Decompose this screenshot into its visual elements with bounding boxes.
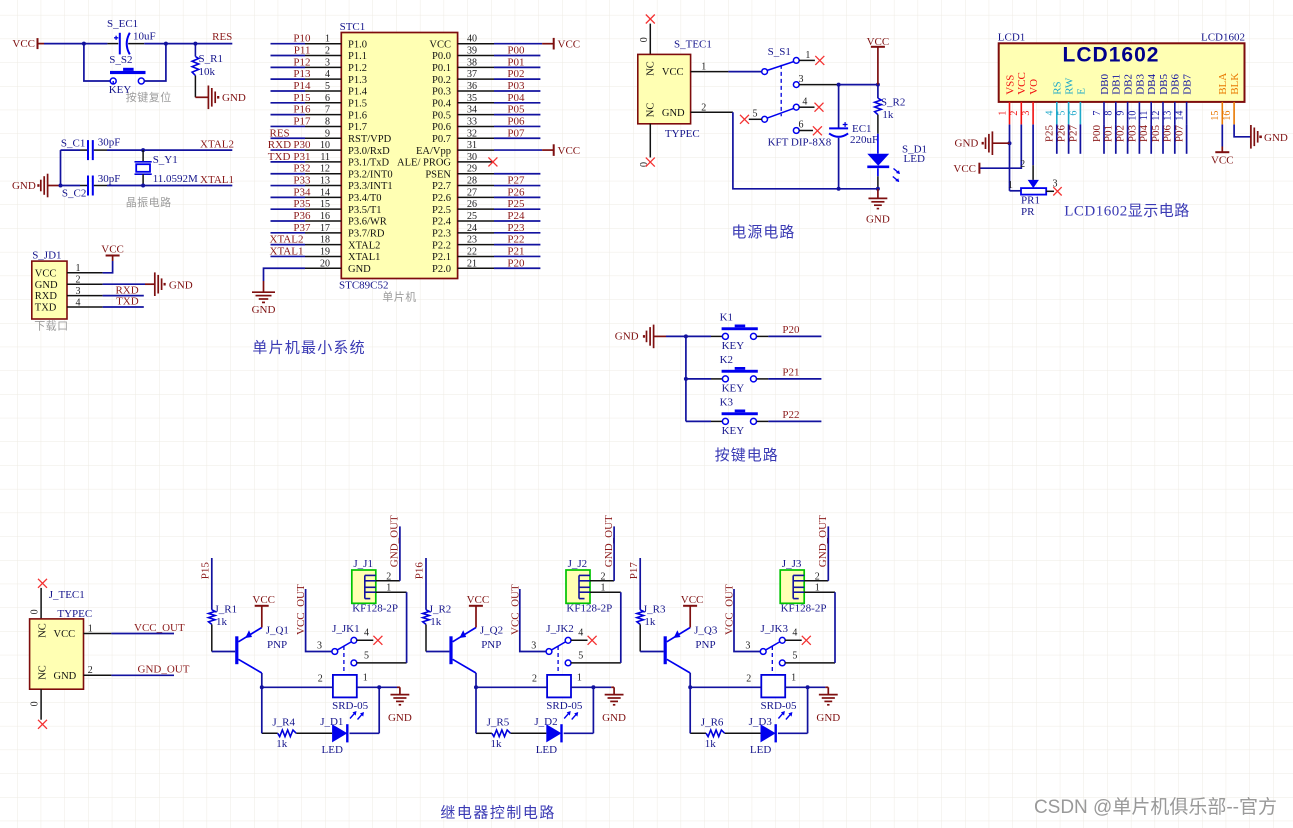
pin 4 — [305, 78, 341, 80]
svg-text:20: 20 — [320, 258, 330, 269]
svg-text:J_R3: J_R3 — [643, 603, 666, 615]
svg-text:1k: 1k — [491, 738, 503, 750]
svg-text:P15: P15 — [200, 562, 212, 580]
svg-text:VCC: VCC — [681, 594, 704, 606]
svg-text:11: 11 — [1139, 111, 1150, 121]
wire — [261, 673, 263, 687]
svg-text:4: 4 — [578, 628, 583, 639]
svg-text:P30: P30 — [293, 139, 311, 151]
svg-text:6: 6 — [325, 93, 330, 104]
wire — [689, 606, 691, 628]
wire — [271, 102, 306, 104]
svg-text:P0.0: P0.0 — [432, 51, 451, 62]
svg-text:5: 5 — [364, 651, 369, 662]
svg-text:0: 0 — [639, 37, 650, 42]
wire — [494, 255, 540, 257]
svg-text:P31: P31 — [293, 151, 310, 163]
svg-text:P0.2: P0.2 — [432, 75, 451, 86]
svg-text:VCC: VCC — [558, 38, 581, 50]
pin 30 — [458, 161, 494, 163]
pin 16 — [305, 220, 341, 222]
wire — [877, 189, 879, 199]
pin 23 — [458, 244, 494, 246]
svg-text:GND_OUT: GND_OUT — [603, 515, 615, 567]
svg-text:P2.3: P2.3 — [432, 229, 451, 240]
svg-text:27: 27 — [467, 187, 477, 198]
svg-text:XTAL2: XTAL2 — [270, 234, 304, 246]
svg-text:GND: GND — [348, 264, 371, 275]
svg-text:1: 1 — [363, 672, 368, 683]
wire — [877, 176, 879, 189]
wire — [425, 558, 427, 610]
wire — [877, 85, 879, 99]
svg-text:GND: GND — [602, 712, 626, 724]
pin 11 — [305, 161, 341, 163]
pin 33 — [458, 125, 494, 127]
wire — [685, 336, 687, 421]
svg-text:XTAL1: XTAL1 — [348, 252, 380, 263]
wire — [426, 651, 449, 653]
svg-text:RES: RES — [212, 31, 232, 43]
wire — [640, 651, 663, 653]
svg-text:1: 1 — [997, 111, 1008, 116]
wire — [262, 686, 333, 688]
svg-text:P34: P34 — [293, 186, 311, 198]
pin 3 — [67, 295, 103, 297]
svg-text:STC1: STC1 — [340, 21, 366, 33]
power port VCC — [553, 38, 555, 50]
pin 18 — [305, 244, 341, 246]
svg-text:P0.3: P0.3 — [432, 87, 451, 98]
svg-text:电源电路: 电源电路 — [731, 224, 795, 241]
wire — [379, 686, 397, 688]
svg-text:GND: GND — [1264, 132, 1288, 144]
svg-text:单片机: 单片机 — [382, 290, 417, 304]
wire — [649, 124, 651, 158]
svg-text:2: 2 — [1009, 111, 1020, 116]
svg-text:S_C2: S_C2 — [62, 187, 86, 199]
junction — [837, 187, 841, 191]
svg-text:4: 4 — [76, 297, 81, 308]
pin 19 — [305, 255, 341, 257]
svg-text:DB1: DB1 — [1111, 74, 1123, 95]
svg-text:GND: GND — [955, 138, 979, 150]
no connect — [646, 158, 655, 167]
svg-text:J_TEC1: J_TEC1 — [49, 589, 85, 601]
pin 35 — [458, 102, 494, 104]
pin 24 — [458, 232, 494, 234]
svg-text:VCC: VCC — [1016, 72, 1028, 95]
svg-text:1: 1 — [325, 34, 330, 45]
svg-text:3: 3 — [531, 640, 536, 651]
no connect — [373, 636, 382, 645]
svg-text:9: 9 — [325, 128, 330, 139]
pin 28 — [458, 185, 494, 187]
svg-text:3: 3 — [76, 286, 81, 297]
junction — [474, 685, 478, 689]
svg-text:31: 31 — [467, 140, 477, 151]
svg-text:P1.2: P1.2 — [348, 63, 367, 74]
junction — [591, 685, 595, 689]
wire — [592, 687, 594, 733]
svg-text:40: 40 — [467, 34, 477, 45]
no connect — [813, 126, 822, 135]
no connect — [588, 636, 597, 645]
svg-text:P0.5: P0.5 — [432, 110, 451, 121]
wire — [1056, 124, 1058, 153]
svg-text:13: 13 — [1163, 111, 1174, 121]
svg-text:4: 4 — [325, 69, 330, 80]
wire — [264, 268, 306, 281]
wire — [1186, 124, 1188, 153]
wire — [60, 150, 62, 185]
svg-text:P23: P23 — [507, 222, 525, 234]
svg-text:2: 2 — [325, 46, 330, 57]
svg-text:5: 5 — [753, 109, 758, 120]
svg-text:P20: P20 — [507, 257, 525, 269]
svg-text:P2.0: P2.0 — [432, 264, 451, 275]
svg-text:GND_OUT: GND_OUT — [817, 515, 829, 567]
pin 14 — [305, 196, 341, 198]
svg-text:RST/VPD: RST/VPD — [348, 134, 392, 145]
svg-text:2: 2 — [532, 673, 537, 684]
wire — [1138, 124, 1140, 153]
svg-text:3: 3 — [1021, 111, 1032, 116]
svg-text:J_D3: J_D3 — [749, 716, 773, 728]
wire — [494, 125, 540, 127]
svg-text:P01: P01 — [507, 56, 524, 68]
svg-text:19: 19 — [320, 246, 330, 257]
svg-text:TXD: TXD — [268, 151, 291, 163]
junction — [684, 334, 688, 338]
svg-text:P3.1/TxD: P3.1/TxD — [348, 158, 390, 169]
svg-text:GND: GND — [816, 712, 840, 724]
wire — [768, 420, 821, 422]
wire — [494, 55, 540, 57]
svg-text:P1.0: P1.0 — [348, 39, 367, 50]
junction — [806, 685, 810, 689]
svg-text:1: 1 — [791, 672, 796, 683]
pin 31 — [458, 149, 494, 151]
wire — [271, 55, 306, 57]
wire — [475, 673, 477, 687]
pin 29 — [458, 173, 494, 175]
svg-text:15: 15 — [320, 199, 330, 210]
pin 5 — [305, 90, 341, 92]
svg-text:P16: P16 — [293, 104, 311, 116]
power port VCC — [112, 256, 114, 261]
wire — [44, 43, 84, 45]
svg-text:S_S2: S_S2 — [109, 54, 132, 66]
svg-text:6: 6 — [799, 120, 804, 131]
svg-text:DB0: DB0 — [1099, 74, 1111, 95]
svg-text:1: 1 — [805, 50, 810, 61]
pin 1 — [799, 59, 815, 61]
wire — [613, 526, 615, 580]
svg-text:GND_OUT: GND_OUT — [138, 664, 190, 676]
svg-text:晶振电路: 晶振电路 — [126, 195, 172, 209]
svg-text:VCC: VCC — [1211, 154, 1234, 166]
ground — [252, 292, 275, 302]
wire — [1115, 124, 1117, 153]
pin 26 — [458, 208, 494, 210]
wire — [649, 24, 651, 55]
wire — [84, 44, 110, 81]
svg-text:S_Y1: S_Y1 — [153, 154, 178, 166]
svg-text:GND: GND — [54, 671, 77, 682]
ground — [868, 198, 887, 208]
ground — [208, 86, 215, 110]
svg-text:P17: P17 — [628, 562, 640, 580]
wire — [212, 651, 235, 653]
wire — [686, 335, 711, 337]
junction — [688, 685, 692, 689]
svg-text:J_J2: J_J2 — [568, 558, 588, 570]
svg-text:37: 37 — [467, 69, 477, 80]
ground — [1251, 125, 1258, 149]
svg-text:VCC: VCC — [54, 629, 76, 640]
pin 15 — [305, 208, 341, 210]
wire — [839, 84, 878, 86]
wire — [271, 255, 306, 257]
svg-text:P0.1: P0.1 — [432, 63, 451, 74]
wire — [785, 686, 807, 688]
wire — [834, 592, 836, 663]
svg-text:NC: NC — [38, 665, 49, 680]
wire — [357, 686, 379, 688]
svg-text:P3.3/INT1: P3.3/INT1 — [348, 181, 393, 192]
pin 34 — [458, 114, 494, 116]
svg-text:7: 7 — [1092, 111, 1103, 116]
svg-text:XTAL1: XTAL1 — [200, 174, 234, 186]
junction — [260, 685, 264, 689]
svg-text:22: 22 — [467, 246, 477, 257]
wire — [979, 125, 1021, 169]
svg-text:J_Q3: J_Q3 — [694, 624, 718, 636]
svg-text:KEY: KEY — [722, 340, 745, 352]
wire — [103, 295, 144, 297]
svg-text:RES: RES — [270, 127, 290, 139]
power port VCC — [1221, 147, 1223, 153]
svg-text:P02: P02 — [507, 68, 524, 80]
svg-text:KFT DIP-8X8: KFT DIP-8X8 — [768, 137, 832, 149]
svg-text:P03: P03 — [507, 80, 525, 92]
svg-text:KEY: KEY — [722, 425, 745, 437]
svg-text:30: 30 — [467, 152, 477, 163]
svg-text:VCC: VCC — [35, 268, 57, 279]
no connect — [740, 115, 749, 124]
svg-text:SRD-05: SRD-05 — [332, 700, 369, 712]
wire — [494, 173, 540, 175]
svg-text:11: 11 — [320, 152, 330, 163]
svg-text:ALE/ PROG: ALE/ PROG — [397, 158, 451, 169]
junction — [193, 42, 197, 46]
svg-text:RW: RW — [1064, 77, 1076, 95]
wire — [261, 606, 263, 628]
svg-text:K2: K2 — [720, 354, 733, 366]
wire — [733, 112, 878, 189]
wire — [84, 43, 108, 45]
svg-text:35: 35 — [467, 93, 477, 104]
svg-text:VCC: VCC — [252, 594, 275, 606]
svg-text:VCC: VCC — [662, 67, 684, 78]
svg-text:EA/Vpp: EA/Vpp — [416, 146, 451, 157]
wire — [195, 96, 208, 98]
svg-text:24: 24 — [467, 223, 477, 234]
svg-text:P17: P17 — [293, 115, 311, 127]
wire — [494, 244, 540, 246]
svg-text:5: 5 — [325, 81, 330, 92]
svg-text:18: 18 — [320, 235, 330, 246]
wire — [103, 306, 144, 308]
svg-text:23: 23 — [467, 235, 477, 246]
svg-text:RXD: RXD — [115, 284, 138, 296]
svg-text:GND: GND — [12, 180, 36, 192]
svg-text:25: 25 — [467, 211, 477, 222]
svg-text:P32: P32 — [293, 163, 310, 175]
wire — [271, 149, 306, 151]
wire — [494, 90, 540, 92]
svg-text:P15: P15 — [293, 92, 311, 104]
wire — [494, 102, 540, 104]
pin 2 — [305, 55, 341, 57]
svg-text:TYPEC: TYPEC — [665, 128, 700, 140]
svg-text:17: 17 — [320, 223, 330, 234]
svg-text:3: 3 — [799, 74, 804, 85]
wire — [406, 592, 408, 663]
svg-text:下载口: 下载口 — [34, 320, 68, 333]
pin 1 — [84, 633, 112, 635]
svg-text:S_TEC1: S_TEC1 — [674, 39, 712, 51]
pin 32 — [458, 137, 494, 139]
svg-text:DB3: DB3 — [1134, 74, 1146, 95]
wire — [143, 185, 232, 187]
svg-text:1: 1 — [76, 263, 81, 274]
svg-text:E: E — [1075, 88, 1087, 95]
wire — [728, 71, 761, 73]
svg-text:P1.7: P1.7 — [348, 122, 367, 133]
junction — [82, 42, 86, 46]
svg-text:PNP: PNP — [481, 639, 501, 651]
svg-text:KF128-2P: KF128-2P — [352, 603, 398, 615]
svg-text:VSS: VSS — [1004, 75, 1016, 95]
pin 4 — [799, 106, 815, 108]
svg-text:P33: P33 — [293, 175, 311, 187]
svg-text:P0.6: P0.6 — [432, 122, 451, 133]
svg-text:1k: 1k — [276, 738, 288, 750]
wire — [494, 43, 542, 45]
wire — [271, 208, 306, 210]
svg-text:3: 3 — [745, 640, 750, 651]
svg-text:14: 14 — [320, 187, 330, 198]
svg-text:J_R2: J_R2 — [429, 603, 452, 615]
svg-text:2: 2 — [76, 275, 81, 286]
wire — [40, 689, 42, 720]
wire — [1009, 125, 1011, 191]
wire — [494, 232, 540, 234]
wire — [271, 66, 306, 68]
svg-text:J_JK2: J_JK2 — [546, 623, 574, 635]
svg-text:10: 10 — [320, 140, 330, 151]
svg-text:P13: P13 — [293, 68, 311, 80]
wire — [877, 134, 879, 154]
wire — [593, 686, 611, 688]
svg-text:1k: 1k — [430, 616, 442, 628]
svg-text:P25: P25 — [1044, 125, 1056, 143]
wire — [520, 589, 547, 652]
svg-text:16: 16 — [320, 211, 330, 222]
wire — [778, 732, 808, 734]
wire — [271, 90, 306, 92]
svg-text:P16: P16 — [414, 562, 426, 580]
svg-text:P1.6: P1.6 — [348, 110, 367, 121]
svg-text:P26: P26 — [507, 186, 525, 198]
svg-text:NC: NC — [646, 61, 657, 76]
svg-text:P35: P35 — [293, 198, 311, 210]
wire — [145, 44, 166, 81]
wire — [494, 149, 542, 151]
svg-text:1k: 1k — [644, 616, 656, 628]
svg-text:CSDN @单片机俱乐部--官方: CSDN @单片机俱乐部--官方 — [1034, 796, 1277, 818]
svg-text:1k: 1k — [882, 109, 894, 121]
svg-text:STC89C52: STC89C52 — [339, 279, 389, 291]
svg-text:S_EC1: S_EC1 — [107, 18, 138, 30]
svg-text:S_R1: S_R1 — [199, 53, 223, 65]
pin 22 — [458, 255, 494, 257]
svg-text:7: 7 — [325, 105, 330, 116]
svg-text:P14: P14 — [293, 80, 311, 92]
wire — [494, 78, 540, 80]
wire — [1103, 124, 1105, 153]
svg-text:LED: LED — [750, 744, 771, 756]
svg-text:J_R5: J_R5 — [487, 716, 510, 728]
wire — [271, 185, 306, 187]
svg-text:P1.5: P1.5 — [348, 99, 367, 110]
wire — [475, 606, 477, 628]
svg-text:KF128-2P: KF128-2P — [566, 603, 612, 615]
svg-text:P01: P01 — [1103, 125, 1115, 142]
junction — [141, 148, 145, 152]
svg-text:KF128-2P: KF128-2P — [781, 603, 827, 615]
svg-text:34: 34 — [467, 105, 477, 116]
wire — [611, 686, 614, 688]
pin 2 — [691, 111, 733, 113]
svg-text:J_Q1: J_Q1 — [266, 624, 289, 636]
pin 4 — [67, 306, 103, 308]
svg-text:10k: 10k — [199, 66, 216, 78]
svg-text:P11: P11 — [294, 45, 311, 57]
svg-text:10uF: 10uF — [133, 31, 156, 43]
svg-text:LCD1602: LCD1602 — [1201, 31, 1245, 43]
wire — [143, 149, 232, 151]
wire — [807, 687, 809, 733]
svg-text:5: 5 — [792, 651, 797, 662]
pin 10 — [305, 149, 341, 151]
svg-text:P05: P05 — [507, 104, 525, 116]
wire — [1174, 124, 1176, 153]
ground — [390, 695, 409, 705]
svg-text:RXD: RXD — [268, 139, 291, 151]
svg-text:P10: P10 — [293, 33, 311, 45]
wire — [271, 196, 306, 198]
svg-text:P0.7: P0.7 — [432, 134, 451, 145]
pin 8 — [305, 125, 341, 127]
wire — [40, 588, 42, 619]
svg-text:S_S1: S_S1 — [768, 46, 791, 58]
wire — [271, 78, 306, 80]
wire — [1234, 125, 1251, 137]
svg-text:RS: RS — [1052, 81, 1064, 94]
